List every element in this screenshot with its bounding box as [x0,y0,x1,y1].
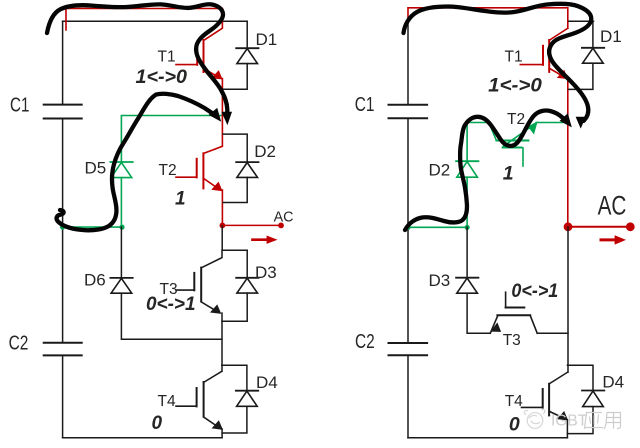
svg-text:D5: D5 [85,158,107,177]
wire neutral link (green) [408,226,467,228]
label D3 [255,263,277,282]
watermark text IGBT [551,413,588,430]
wire top rail stub to D1 [569,20,594,22]
node AC output (red dot) [564,222,573,231]
diode D1 [568,21,604,89]
wire T4 emitter to bottom rail [221,429,223,438]
capacitor C1 [44,105,82,119]
label D1 [256,30,278,49]
LEFT-CIRCUIT [9,4,294,437]
label C2 [355,331,375,353]
transistor T2 (IGBT, green, rotated) [489,122,537,166]
svg-text:T3: T3 [503,332,521,349]
svg-text:0<->1: 0<->1 [146,294,196,315]
label T4 [158,393,176,410]
arrow AC current direction (red) [253,236,278,244]
wire T3 collector column [201,250,222,268]
freehand commutation arrow from neutral through D5 to T1-T2 node [57,94,213,231]
transistor T2 (IGBT, red) [176,153,222,190]
transistor T1 (IGBT, red) [176,40,222,79]
freehand commutation arrow along top rail through T1 [47,4,227,112]
svg-text:C1: C1 [355,94,375,116]
diode D6 (clamp) [110,278,132,293]
label D4 [602,373,624,392]
transistor T4 (IGBT) [176,382,222,429]
arrow AC current direction (red) [601,235,626,244]
svg-text:D2: D2 [254,142,276,161]
label T2 [507,111,525,128]
wire T4 emitter to bottom rail [566,420,568,438]
diode D2 (green clamp) [456,161,478,177]
wire T3 emitter to T4 collector [221,313,223,371]
svg-text:1: 1 [175,188,186,209]
diode D3 [222,250,259,321]
wire left DC rail middle [407,118,409,343]
diode D3 (clamp) [456,278,478,294]
wire red T1 emitter to T2 collector [203,79,222,154]
label T1 [158,48,176,65]
label state 0<->1 [146,294,196,315]
svg-text:1<->0: 1<->0 [136,67,188,88]
label AC [274,209,294,225]
wire AC stub (red) [222,224,281,226]
transistor T3 (IGBT) [176,268,221,314]
diode D4 [567,365,604,433]
watermark glyph ying [585,413,603,429]
label T1 [505,48,523,65]
wire red collector column T1 [549,28,568,40]
diode D2 [223,134,259,202]
node neutral rail junction (green dot) [405,225,410,230]
svg-text:D3: D3 [255,263,277,282]
wire left DC rail middle [62,119,64,343]
wire AC node down output column [567,227,569,372]
wire bottom rail [408,437,567,439]
label state 1<->0 [136,67,188,88]
label D3 [429,271,451,290]
svg-text:0<->1: 0<->1 [511,280,558,302]
label T4 [505,393,523,410]
label T3 [160,281,178,298]
capacitor C2 [389,343,428,355]
svg-text:0: 0 [152,413,163,434]
transistor T4 (IGBT) [522,384,568,420]
svg-text:D1: D1 [600,27,622,46]
svg-text:D4: D4 [256,373,278,392]
watermark logo circle [524,410,545,429]
node AC terminal (red dot) [278,223,284,229]
label state 0 [509,414,520,436]
svg-text:C2: C2 [355,331,375,353]
wire left DC rail lower [407,355,409,438]
svg-text:AC: AC [274,209,294,225]
wire bottom rail [63,437,223,439]
diode D4 [222,365,258,433]
label C1 [10,94,29,116]
wire green T2 emitter to output column [536,122,566,124]
svg-text:T2: T2 [507,111,525,128]
svg-text:T1: T1 [505,48,523,65]
wire top rail highlighted (red) [66,9,222,31]
node AC output (red dot) [220,223,226,229]
label D5 [85,158,107,177]
wire AC stub (red) [568,226,630,228]
svg-text:IGBT: IGBT [551,413,588,430]
svg-text:D1: D1 [256,30,278,49]
wire top rail highlighted (red) [408,8,568,28]
label D4 [256,373,278,392]
wire red collector column T1 [204,9,223,41]
wire D3 top link [222,249,247,251]
svg-text:T4: T4 [505,393,523,410]
arrowhead of neutral freehand arrow [209,108,222,122]
wire AC node down to D3 branch [221,226,223,250]
arrowhead of top freehand arrow [221,112,232,125]
label T3 [503,332,521,349]
diode D5 (green clamp) [110,162,132,178]
wire top rail (black, DC+) [63,20,248,22]
RIGHT-CIRCUIT [355,4,635,438]
wire left DC rail upper [62,21,64,104]
svg-text:C1: C1 [10,94,29,116]
capacitor C2 [44,343,82,356]
svg-text:1: 1 [503,163,514,185]
label T2 [159,162,177,179]
svg-text:C2: C2 [9,333,29,355]
freehand commutation arrow from neutral through D2 and T2 [405,111,564,230]
wire D3 anode down and right to T3 emitter [467,293,490,333]
label D6 [84,271,106,290]
wire neutral to D6 [120,227,122,278]
node neutral rail junction (green dot) [60,225,65,230]
svg-text:T4: T4 [158,393,176,410]
svg-text:D6: D6 [84,271,106,290]
wire neutral to D3 [466,227,468,277]
wire green D2 cathode column [466,123,468,162]
wire left DC rail upper [407,22,409,105]
svg-text:AC: AC [598,190,627,220]
diode D1 [223,21,259,89]
svg-text:0: 0 [509,414,520,436]
svg-text:T1: T1 [158,48,176,65]
wire neutral link (green) [63,226,123,228]
wire green D2 to T2 collector [467,122,489,124]
wire D5 anode to neutral (green) [120,178,122,228]
freehand commutation arrow along top rail through T1 [404,4,592,121]
node AC terminal (red dot) [626,222,635,231]
label D2 [429,160,451,179]
wire red T1 emitter to AC node [567,78,569,227]
capacitor C1 [389,105,428,119]
transistor T1 (IGBT, red) [520,40,567,79]
label D1 [600,27,622,46]
label D2 [254,142,276,161]
watermark glyph yong [604,413,621,429]
svg-text:T2: T2 [159,162,177,179]
wire D2 anode to neutral (green) [466,177,468,227]
wire T4 collector diag [204,371,222,382]
svg-text:D4: D4 [602,373,624,392]
arrowhead of top freehand arrow [576,117,586,129]
label state 1 [503,163,514,185]
label state 0 [152,413,163,434]
wire T3 collector to output column [537,332,568,334]
wire D6 anode to T3/T4 junction [121,293,221,339]
transistor T3 (IGBT, rotated) [490,292,537,333]
wire red T2 emitter to AC node [221,190,223,225]
svg-text:1<->0: 1<->0 [488,74,542,96]
svg-text:D2: D2 [429,160,451,179]
wire T4 collector diag [549,372,567,384]
label state 1 [175,188,186,209]
label C1 [355,94,375,116]
label C2 [9,333,29,355]
label AC [598,190,627,220]
label state 1<->0 [488,74,542,96]
node clamp junction (green dot) [465,225,470,230]
wire left DC rail lower [62,355,64,437]
arrowhead of neutral freehand arrow [560,113,572,127]
svg-text:D3: D3 [429,271,451,290]
wire green from T1-T2 node to D5 [121,116,221,163]
node clamp junction (green dot) [119,225,124,230]
label state 0<->1 [511,280,558,302]
